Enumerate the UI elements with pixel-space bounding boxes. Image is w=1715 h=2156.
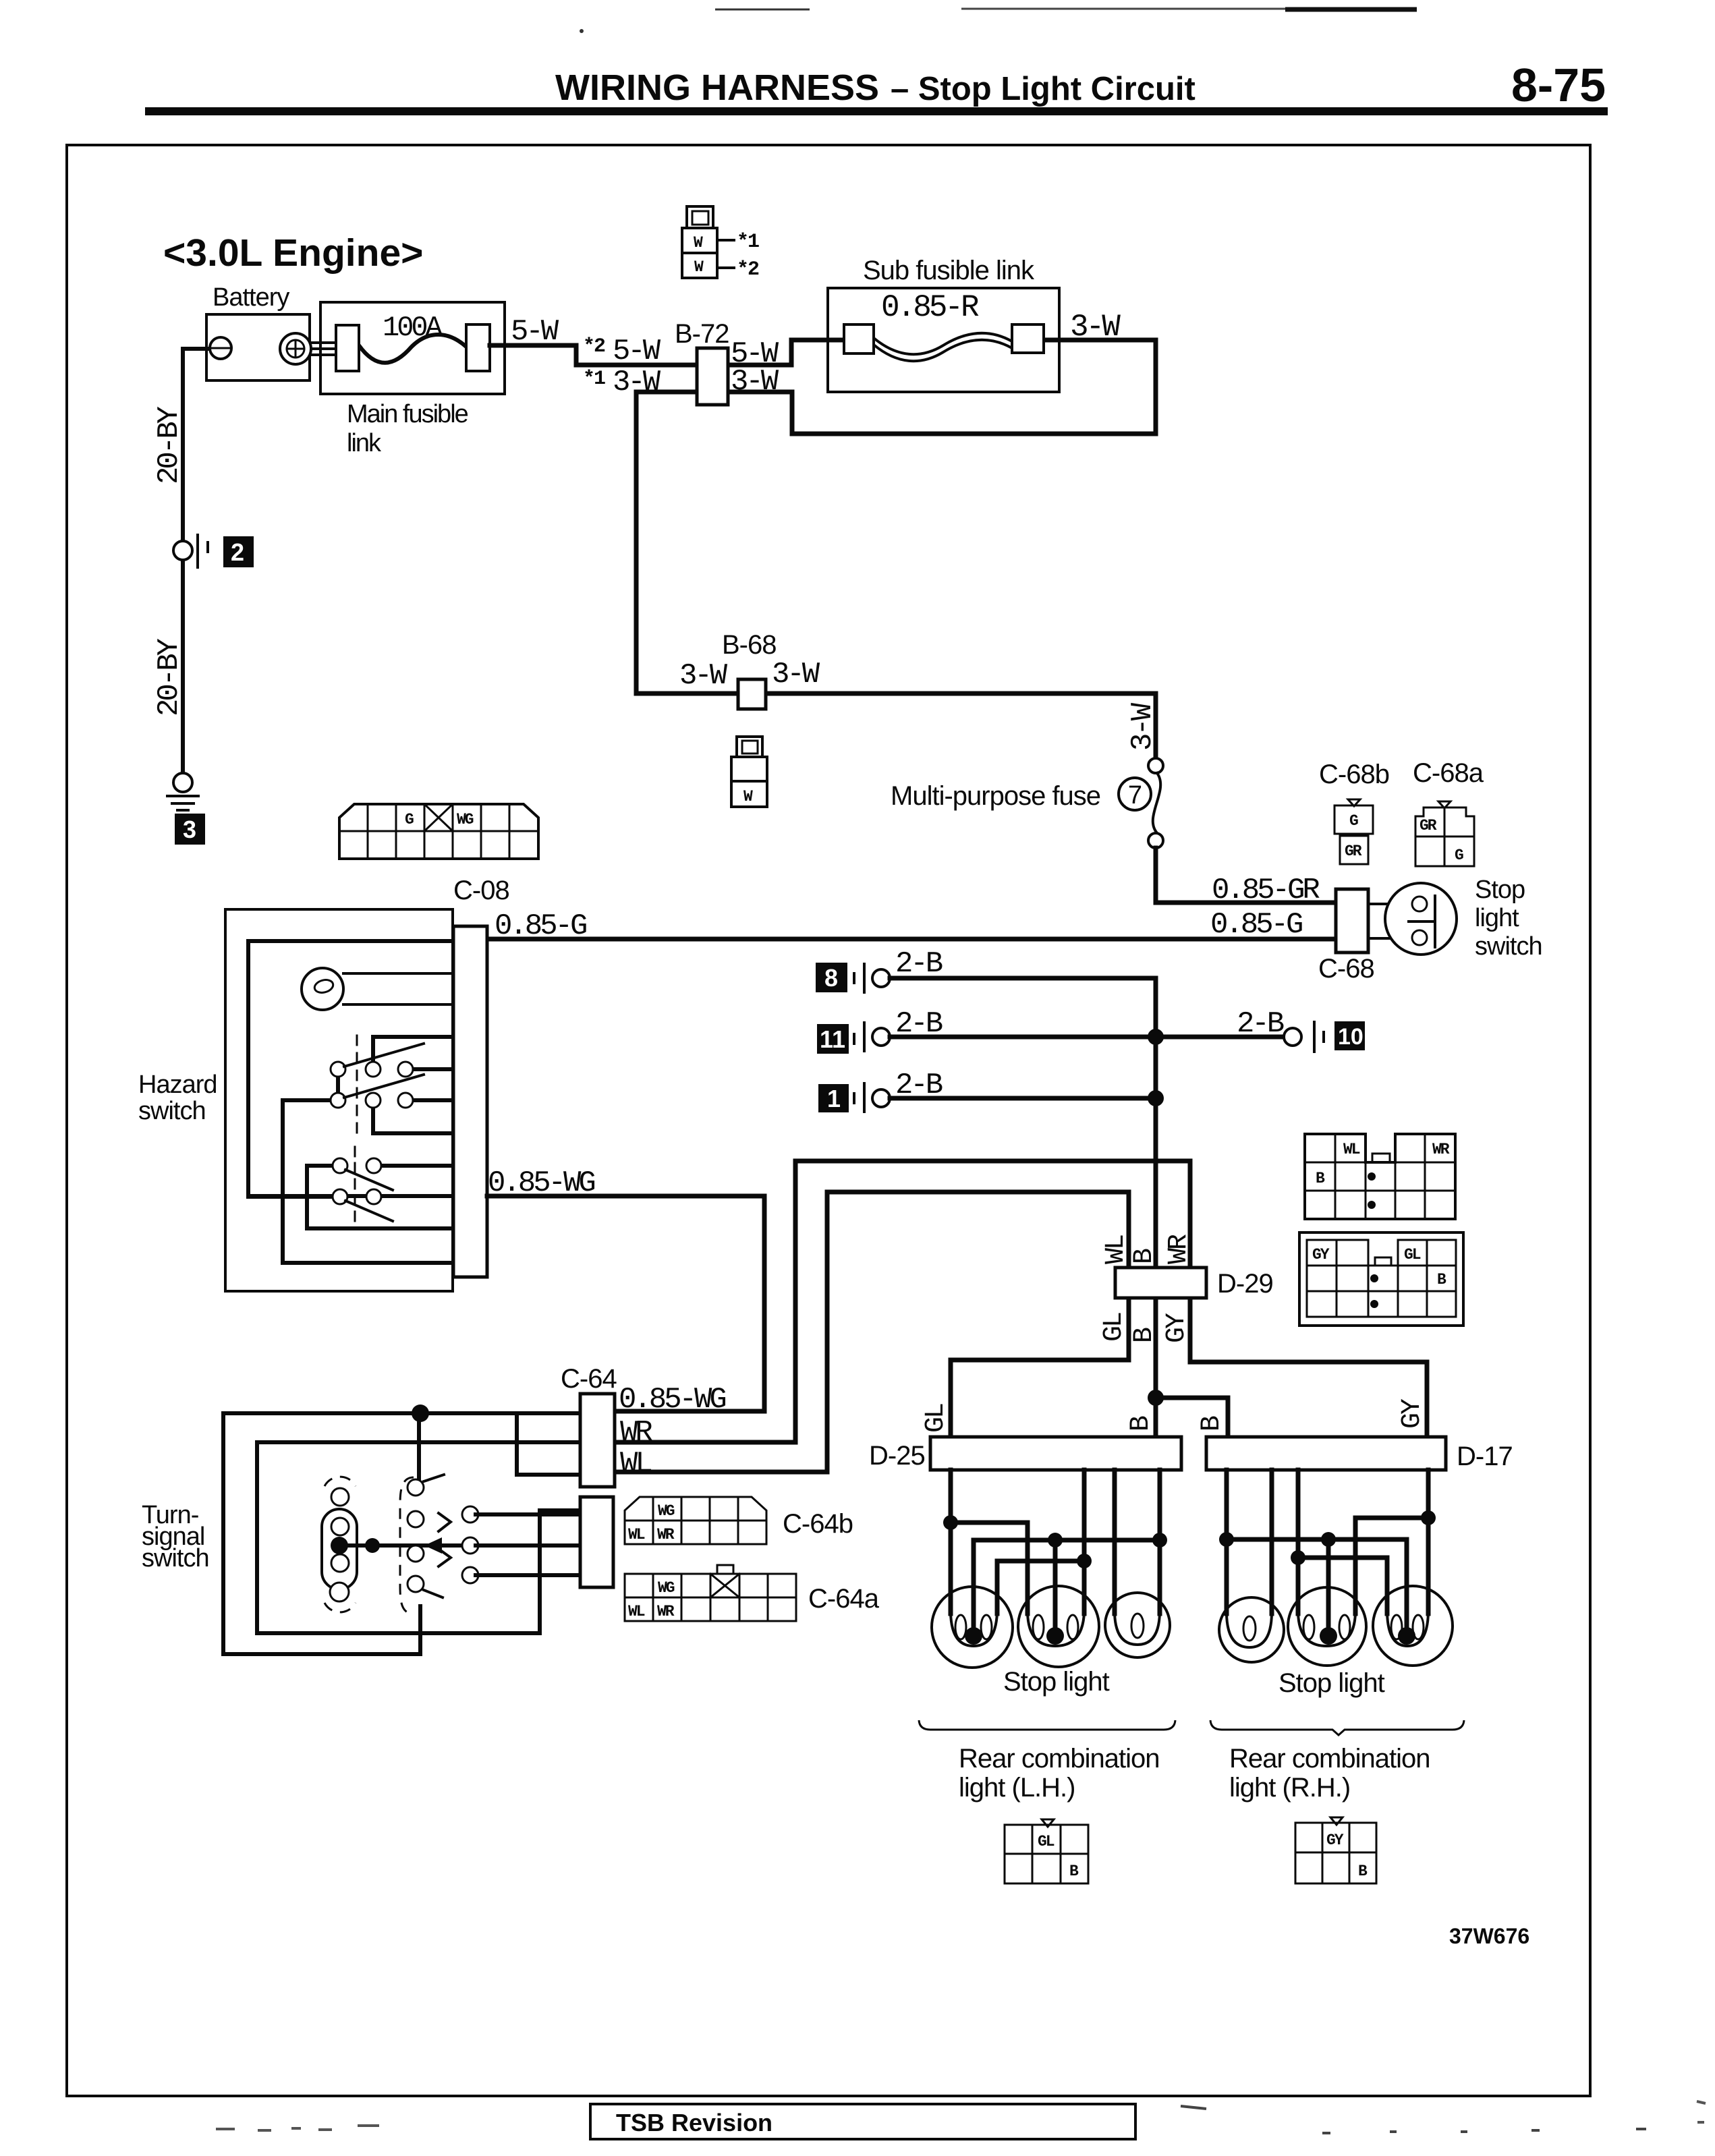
svg-text:*1: *1 [737,231,759,254]
key connector W/W top box [687,206,713,228]
svg-text:Battery: Battery [213,283,289,312]
wires C-68 to switch contacts [1368,904,1413,938]
LH branch to bulb2 left [951,1523,1028,1614]
connector C-64 lower [580,1497,613,1587]
wire 0.85-WG hazard to C-64 [487,1196,764,1411]
wire 2-B from ground 11 [890,1035,1156,1040]
svg-text:– Stop Light Circuit: – Stop Light Circuit [891,71,1196,107]
inner loop WR [257,1442,580,1633]
wire 5-W output with step [490,345,699,365]
scan artifact bottom dashes [216,2126,379,2130]
svg-text:G: G [405,811,414,828]
connector C-68 [1336,889,1368,953]
ground 10 symbol [1284,1028,1301,1046]
svg-text:B: B [1129,1249,1160,1264]
svg-text:WL: WL [1101,1235,1131,1264]
svg-text:Stop light: Stop light [1278,1668,1385,1698]
wire 3-W lower row through B-72 [636,340,1156,434]
svg-text:3-W: 3-W [1070,310,1121,345]
wire GL D-29 to D-25 [951,1298,1129,1437]
scan artifact top lines [715,9,810,11]
LH bulb 2 [1018,1586,1099,1667]
C-08 pin grid [339,804,538,859]
svg-text:2-B: 2-B [895,947,943,981]
svg-text:1: 1 [827,1085,841,1112]
svg-text:0.85-WG: 0.85-WG [488,1166,594,1200]
svg-text:switch: switch [1475,932,1542,961]
ground 8 symbol [854,964,864,992]
ground 3 number box [175,814,205,845]
ground 2 number box [223,536,254,567]
sub link right terminal [1012,324,1044,353]
hazard upper contacts wiring [338,1037,453,1133]
svg-text:GY: GY [1312,1246,1330,1264]
svg-text:0.85-WG: 0.85-WG [619,1383,725,1417]
C-64b pin grid [625,1497,766,1544]
wire from common dot with arrow [348,1543,464,1548]
wire B bus through D-29 [1154,1268,1158,1398]
svg-text:GL: GL [1038,1833,1055,1850]
hazard left route [283,1100,453,1263]
sub fusible link box [828,288,1059,392]
svg-text:B: B [1129,1328,1160,1343]
svg-text:WG: WG [658,1502,675,1520]
hazard lower blades [345,1170,393,1221]
header rule [145,107,1608,115]
svg-text:Main fusible: Main fusible [347,400,468,428]
hazard mech dashed link [356,1036,358,1133]
svg-text:light: light [1475,904,1519,932]
svg-text:WL: WL [1343,1141,1360,1158]
wire WR C-64 to D-29 [615,1161,1190,1442]
svg-text:0.85-R: 0.85-R [881,290,979,325]
svg-text:GR: GR [1345,843,1362,860]
svg-text:WR: WR [657,1526,675,1543]
wire battery plus to fusible link (triple) [307,343,337,355]
RH third link [1298,1518,1428,1614]
svg-text:8-75: 8-75 [1511,59,1606,111]
svg-text:C-68: C-68 [1318,954,1374,984]
svg-text:C-68a: C-68a [1413,758,1484,788]
svg-text:5-W: 5-W [511,315,559,349]
column blades [424,1475,451,1597]
svg-text:10: 10 [1338,1024,1363,1050]
svg-text:WL: WL [628,1603,645,1620]
svg-text:WR: WR [657,1603,675,1620]
svg-text:8: 8 [824,964,838,992]
B-68 key connector top box [737,737,762,757]
svg-text:switch: switch [138,1097,206,1125]
lead to *1 [717,239,734,242]
svg-text:G: G [1455,847,1463,864]
ground 1 symbol [854,1083,864,1112]
ground 8 number box [816,963,847,992]
svg-text:link: link [347,429,382,457]
svg-text:<3.0L Engine>: <3.0L Engine> [163,231,423,275]
bullet terminals with wires [462,1506,580,1583]
svg-text:B-72: B-72 [675,319,729,349]
ground 11 number box [817,1024,849,1054]
switch contact upper [1412,897,1427,911]
svg-text:Sub fusible link: Sub fusible link [863,256,1035,285]
wire 3-W down to B-68 [636,392,737,693]
RH bulb 3 [1373,1586,1453,1666]
connector D-25 [930,1437,1181,1470]
B-68 key connector body [731,757,767,807]
svg-text:WL: WL [620,1447,651,1481]
wire B-68 to fuse [767,693,1156,758]
svg-text:TSB Revision: TSB Revision [616,2109,772,2136]
GL/B connector icon [1005,1819,1088,1883]
hazard lower contact circles [333,1158,381,1204]
wire fuse to 0.85-GR corner [1156,848,1337,903]
svg-text:WR: WR [620,1416,652,1450]
svg-text:3-W: 3-W [679,659,728,693]
svg-text:switch: switch [142,1544,209,1572]
wire battery minus to down lead [183,349,208,542]
connector D-29 [1115,1268,1206,1298]
svg-text:GL: GL [1404,1246,1421,1264]
svg-text:WR: WR [1164,1235,1194,1264]
svg-text:C-68b: C-68b [1319,760,1389,789]
RH bulb 1 [1219,1597,1284,1662]
svg-text:light (L.H.): light (L.H.) [959,1773,1075,1803]
wire 2-B to ground 10 [1156,1035,1284,1040]
hazard upper contact circles [331,1062,413,1108]
sub link left terminal [844,324,874,353]
pill circles [331,1488,349,1506]
dashed arcs [325,1477,356,1486]
LH wires from D-25 [1084,1470,1160,1614]
main fusible link box [320,302,505,394]
ground tap 2 eyelet [173,541,192,560]
turn-signal stadium pill [322,1509,357,1589]
svg-text:Hazard: Hazard [138,1071,217,1099]
svg-text:Rear combination: Rear combination [959,1744,1160,1774]
GY/B connector icon [1295,1817,1376,1883]
svg-text:7: 7 [1128,781,1142,810]
svg-text:*2: *2 [583,335,605,358]
svg-text:B: B [1126,1416,1156,1431]
wire 2-B from ground 1 [890,1096,1156,1101]
svg-text:GY: GY [1397,1398,1428,1429]
svg-text:GL: GL [1099,1313,1129,1342]
hazard lower contacts wiring [248,1166,453,1228]
wire B branch to D-17 [1156,1398,1228,1437]
circled 7 [1119,778,1151,810]
main fusible link right terminal [466,324,490,371]
LH junction dot [943,1515,958,1530]
svg-text:5-W: 5-W [613,335,661,368]
LH bulb 1 [932,1587,1013,1668]
svg-text:2: 2 [231,538,244,566]
hazard switch blades [344,1044,424,1098]
svg-text:WIRING HARNESS: WIRING HARNESS [555,67,879,108]
svg-text:Multi-purpose fuse: Multi-purpose fuse [891,781,1100,811]
RH bulb 2 [1288,1587,1366,1666]
switch blade [1409,896,1435,947]
LH bulb 3 [1105,1593,1170,1657]
svg-text:20-BY: 20-BY [152,638,186,716]
svg-text:*2: *2 [737,258,759,281]
junction dot 11 [1148,1029,1164,1045]
hazard lower dashed link [354,1147,356,1222]
wire 0.85-G long [487,937,1337,942]
ground 3 eyelet [173,773,192,792]
TSB Revision box [590,2104,1135,2139]
svg-text:C-64b: C-64b [783,1509,853,1539]
svg-text:WG: WG [457,811,474,828]
svg-text:D-17: D-17 [1457,1442,1513,1471]
svg-text:Stop: Stop [1475,876,1525,904]
ground 1 number box [818,1084,849,1112]
hazard inner box [248,941,453,1196]
svg-text:C-64: C-64 [561,1364,617,1394]
svg-text:100A: 100A [383,312,443,344]
svg-text:WR: WR [1432,1141,1450,1158]
battery plus terminal [280,333,311,364]
ground 11 symbol [854,1023,864,1051]
wire 20-BY down [181,559,185,773]
ground 10 number box [1334,1021,1365,1050]
connector C-64 upper [580,1394,615,1487]
svg-text:GY: GY [1162,1313,1192,1343]
C-64a pin grid [625,1565,796,1621]
RH bracket [1210,1720,1464,1735]
svg-text:2-B: 2-B [1237,1007,1284,1041]
svg-text:0.85-GR: 0.85-GR [1212,874,1320,907]
wire WL branch from top edge [517,1413,580,1475]
wire GY D-29 to D-17 [1190,1298,1427,1437]
svg-text:3: 3 [183,816,196,843]
junction dot on top edge [412,1405,429,1422]
ground 2 symbol [198,535,208,567]
svg-text:3-W: 3-W [772,658,820,691]
svg-text:11: 11 [820,1025,845,1053]
battery minus terminal [210,337,231,359]
junction dot B split [1148,1390,1164,1406]
connector B-68 [738,679,766,709]
C-68a icon [1415,801,1474,866]
wire 2-B from ground 8 [890,978,1156,1268]
svg-text:3-W: 3-W [731,365,779,399]
wire B to D-25 [1154,1398,1158,1437]
column circles [407,1479,424,1496]
svg-text:Stop light: Stop light [1003,1667,1110,1697]
LH center bus [974,1540,1160,1634]
main fusible link left terminal [336,325,359,371]
C-68b icon [1334,799,1373,864]
RH wire B pin down [1225,1470,1229,1614]
ground 3 earth symbol [167,796,198,810]
svg-text:2-B: 2-B [895,1007,943,1041]
WL/WR pin grid [1305,1134,1455,1219]
LH wire GL pin down [949,1470,953,1614]
sub fuse element double wavy [874,333,1012,354]
RH center bus [1227,1539,1407,1634]
svg-text:*1: *1 [583,368,605,391]
svg-text:B: B [1197,1416,1227,1431]
svg-text:WL: WL [628,1526,645,1543]
svg-text:37W676: 37W676 [1449,1924,1529,1948]
connector B-72 [697,348,728,405]
GY/GL pin grid [1299,1232,1463,1326]
stop light switch body [1385,883,1457,955]
svg-text:G: G [1349,812,1358,830]
svg-text:light (R.H.): light (R.H.) [1229,1773,1350,1803]
multi-purpose fuse symbol [1148,758,1163,848]
svg-text:3-W: 3-W [1126,702,1160,751]
wire WL C-64 to D-29 [615,1192,1129,1472]
RH wires from D-17 [1272,1470,1428,1614]
LH third link [997,1561,1084,1614]
lead to *2 [717,266,734,269]
battery box [206,314,310,380]
connector D-17 [1206,1437,1446,1470]
turn-signal outer box [223,1413,580,1654]
svg-text:GY: GY [1326,1832,1344,1849]
svg-text:D-29: D-29 [1217,1269,1273,1299]
svg-text:C-08: C-08 [453,876,509,905]
svg-text:GL: GL [921,1404,951,1433]
wire 5-W after B-72 up into sub link [726,340,845,365]
fuse element wavy [359,335,466,363]
svg-text:C-64a: C-64a [808,1584,880,1614]
svg-text:20-BY: 20-BY [152,406,186,484]
dashed contact column [400,1477,414,1614]
LH bracket [919,1720,1175,1730]
switch contact lower [1412,930,1427,945]
svg-text:2-B: 2-B [895,1069,943,1102]
svg-text:Rear combination: Rear combination [1229,1744,1430,1774]
svg-text:B-68: B-68 [722,630,777,660]
svg-text:GR: GR [1419,817,1437,834]
junction dot 1 [1148,1090,1164,1106]
C-08 connector tab [453,926,487,1277]
hazard switch outer box [225,909,453,1291]
svg-text:0.85-G: 0.85-G [495,909,586,943]
hazard lamp [302,968,453,1010]
wire top dot to column [417,1413,421,1479]
key connector W/W body [682,228,717,278]
svg-text:WG: WG [658,1579,675,1597]
svg-text:D-25: D-25 [869,1441,925,1471]
